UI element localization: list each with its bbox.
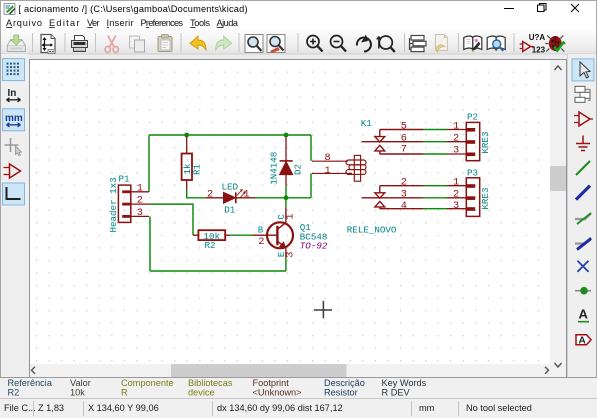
annotate icon	[520, 33, 546, 55]
place component tool	[574, 112, 593, 126]
app icon	[4, 4, 16, 15]
diode D2 1N4148	[280, 137, 293, 186]
svg-text:KRE3: KRE3	[480, 188, 491, 210]
paste icon (disabled)	[158, 35, 172, 52]
status bar	[0, 398, 597, 418]
right toolbar	[568, 54, 597, 378]
wire drop to relay coil pin 8	[310, 135, 312, 161]
cursor shape button	[5, 138, 22, 156]
svg-text:Header 1x3: Header 1x3	[108, 177, 119, 232]
svg-text:Key Words: Key Words	[382, 378, 427, 388]
inches button	[7, 88, 21, 102]
bus-to-bus entry tool	[575, 238, 591, 250]
wire K1 pin3 to P3 pin2	[423, 197, 447, 199]
svg-text:Preferences: Preferences	[141, 18, 184, 28]
scrollbars	[30, 60, 566, 377]
wire D2 anode to node	[285, 186, 287, 198]
svg-text:6: 6	[401, 133, 407, 145]
window buttons	[504, 4, 579, 13]
svg-text:Referência: Referência	[8, 378, 53, 388]
wire P1 pin2 to R2	[149, 204, 193, 235]
svg-text:P1: P1	[119, 174, 131, 185]
svg-text:2: 2	[207, 188, 213, 200]
svg-text:2: 2	[453, 189, 459, 201]
wire up to P1 pin3	[149, 216, 151, 271]
place power port tool	[576, 136, 590, 151]
title bar	[1, 1, 596, 16]
print icon	[72, 36, 88, 52]
wire rise to relay coil pin 1	[310, 173, 312, 198]
svg-text:Tools: Tools	[190, 18, 210, 28]
svg-text:1: 1	[243, 188, 249, 200]
svg-text:In: In	[8, 88, 17, 99]
junction node at R1 top	[184, 133, 189, 138]
transistor Q1 BC548	[253, 208, 294, 258]
left toolbar	[1, 54, 29, 378]
svg-text:dx 134,60 dy 99,06 dist 167,: dx 134,60 dy 99,06 dist 167,12	[217, 403, 343, 413]
vertical scrollbar	[550, 60, 566, 377]
svg-text:1: 1	[453, 120, 459, 132]
cut icon (scissors)	[105, 36, 118, 53]
relay K1 contact set 5-6-7	[362, 130, 424, 155]
connector P1 Header 1x3	[118, 185, 149, 222]
junction tool	[575, 287, 591, 295]
wire K1 pin5 to P2 pin1	[423, 129, 447, 131]
svg-text:R DEV: R DEV	[382, 388, 411, 398]
svg-text:P3: P3	[467, 167, 478, 178]
separators	[33, 33, 515, 52]
redo icon (disabled)	[216, 36, 232, 50]
no connect tool	[578, 261, 589, 272]
copy icon (disabled)	[130, 36, 145, 52]
svg-text:1: 1	[284, 213, 296, 219]
wire bottom rail	[150, 270, 286, 272]
svg-text:Bibliotecas: Bibliotecas	[188, 378, 233, 388]
relay K1 coil	[312, 155, 366, 181]
place wire tool	[576, 161, 590, 175]
junction node at D2 cathode rail	[284, 133, 289, 138]
svg-text:Arquivo: Arquivo	[6, 18, 42, 28]
svg-text:Ajuda: Ajuda	[217, 18, 239, 28]
wire K1 pin4 to P3 pin3	[423, 208, 447, 210]
canvas	[29, 59, 567, 377]
svg-text:Ver: Ver	[87, 18, 100, 28]
wire P1 pin1 to top rail	[148, 135, 150, 192]
find replace icon	[267, 35, 285, 54]
svg-text:3: 3	[137, 207, 143, 219]
place bus tool	[576, 186, 590, 200]
zoom fit icon	[377, 36, 395, 52]
HV orientation button selected	[3, 183, 25, 205]
svg-text:2: 2	[258, 236, 264, 248]
resistor R2	[193, 230, 230, 240]
svg-text:U?A: U?A	[529, 33, 546, 42]
svg-text:3: 3	[453, 200, 459, 212]
cursor tool selected	[572, 59, 594, 81]
zoom in icon	[307, 36, 323, 52]
zoom out icon	[331, 36, 347, 52]
svg-text:8: 8	[325, 152, 331, 164]
main toolbar	[1, 29, 596, 55]
svg-text:Z 1,83: Z 1,83	[38, 403, 64, 413]
svg-text:7: 7	[401, 144, 407, 156]
wire Q1 collector to node	[285, 198, 287, 208]
save icon (disabled)	[7, 35, 25, 52]
leave sheet icon (disabled)	[435, 35, 447, 53]
svg-text:3: 3	[284, 252, 296, 258]
svg-text:TO-92: TO-92	[300, 240, 328, 251]
junction node A LED cathode / D2 anode / Q1 collector	[284, 195, 289, 200]
connector P2 KRE3	[447, 122, 480, 160]
svg-text:A: A	[579, 335, 586, 346]
wire K1 pin6 to P2 pin2	[423, 141, 447, 143]
svg-text:R: R	[121, 388, 128, 398]
wire top rail	[149, 134, 311, 136]
svg-text:No tool selected: No tool selected	[466, 403, 532, 413]
svg-text:B: B	[258, 225, 264, 236]
svg-text:4: 4	[401, 200, 407, 212]
svg-text:RELE_NOVO: RELE_NOVO	[347, 224, 397, 235]
svg-text:Inserir: Inserir	[107, 18, 134, 28]
grid button selected	[3, 59, 25, 81]
svg-text:1: 1	[325, 165, 331, 177]
ERC icon (ladybug)	[545, 36, 565, 52]
svg-text:Descrição: Descrição	[324, 378, 365, 388]
svg-text:5: 5	[401, 120, 407, 132]
wire-to-bus entry tool	[575, 213, 591, 224]
svg-text:mm: mm	[419, 403, 435, 413]
wire K1 pin2 to P3 pin1	[423, 185, 447, 187]
svg-text:Footprint: Footprint	[253, 378, 290, 388]
hidden pins button	[4, 164, 21, 178]
svg-text:D1: D1	[224, 205, 236, 216]
svg-text:mm: mm	[5, 113, 23, 124]
wire K1 pin7 to P2 pin3	[423, 153, 447, 155]
svg-text:[ acionamento /] (C:\Users\gam: [ acionamento /] (C:\Users\gamboa\Docume…	[19, 4, 248, 14]
svg-text:2: 2	[401, 177, 407, 189]
svg-text:KRE3: KRE3	[480, 132, 491, 154]
find icon	[245, 35, 263, 53]
page settings icon	[41, 35, 55, 54]
svg-text:K1: K1	[361, 118, 373, 129]
svg-text:3: 3	[453, 145, 459, 157]
svg-text:Editar: Editar	[49, 18, 80, 28]
svg-text:2: 2	[453, 133, 459, 145]
svg-text:A: A	[579, 307, 589, 322]
svg-text:Resistor: Resistor	[324, 388, 358, 398]
svg-text:123: 123	[532, 46, 546, 55]
library browser icon	[487, 36, 505, 51]
library editor icon	[464, 36, 482, 53]
svg-text:D2: D2	[293, 164, 304, 175]
highlight net tool	[575, 86, 590, 102]
resistor R1	[182, 137, 192, 191]
connector P3 KRE3	[447, 178, 480, 217]
svg-text:device: device	[188, 388, 215, 398]
net label tool	[578, 307, 589, 322]
svg-text:File C...: File C...	[4, 403, 36, 413]
svg-text:1: 1	[137, 182, 143, 194]
svg-text:1: 1	[453, 177, 459, 189]
wire R1 bottom to LED anode	[187, 190, 206, 198]
undo icon	[190, 36, 206, 50]
svg-text:10k: 10k	[70, 388, 85, 398]
info panel	[0, 377, 597, 398]
svg-text:P2: P2	[467, 111, 478, 122]
wire R2 to Q1 base	[230, 234, 253, 236]
editor crosshair cursor	[314, 301, 332, 318]
wire LED cathode to node junction	[256, 197, 312, 199]
hierarchy navigator icon	[410, 36, 427, 52]
svg-text:LED: LED	[222, 181, 239, 192]
relay K1 contact set 2-3-4	[362, 186, 424, 209]
mm button selected	[3, 109, 25, 131]
horizontal scrollbar	[30, 364, 550, 377]
svg-text:X 134,60 Y 99,06: X 134,60 Y 99,06	[88, 403, 159, 413]
global label tool	[576, 335, 591, 347]
svg-text:Valor: Valor	[70, 378, 91, 388]
svg-text:3: 3	[401, 189, 407, 201]
wire Q1 emitter down	[285, 258, 287, 271]
svg-text:R1: R1	[192, 163, 203, 175]
svg-text:1N4148: 1N4148	[269, 152, 280, 185]
svg-text:2: 2	[137, 195, 143, 207]
LED D1	[206, 189, 256, 203]
svg-text:R2: R2	[8, 388, 20, 398]
svg-text:R2: R2	[205, 240, 216, 251]
menu bar	[1, 16, 596, 29]
redraw icon	[357, 35, 371, 52]
svg-text:<Unknown>: <Unknown>	[253, 388, 302, 398]
svg-text:Componente: Componente	[121, 378, 174, 388]
